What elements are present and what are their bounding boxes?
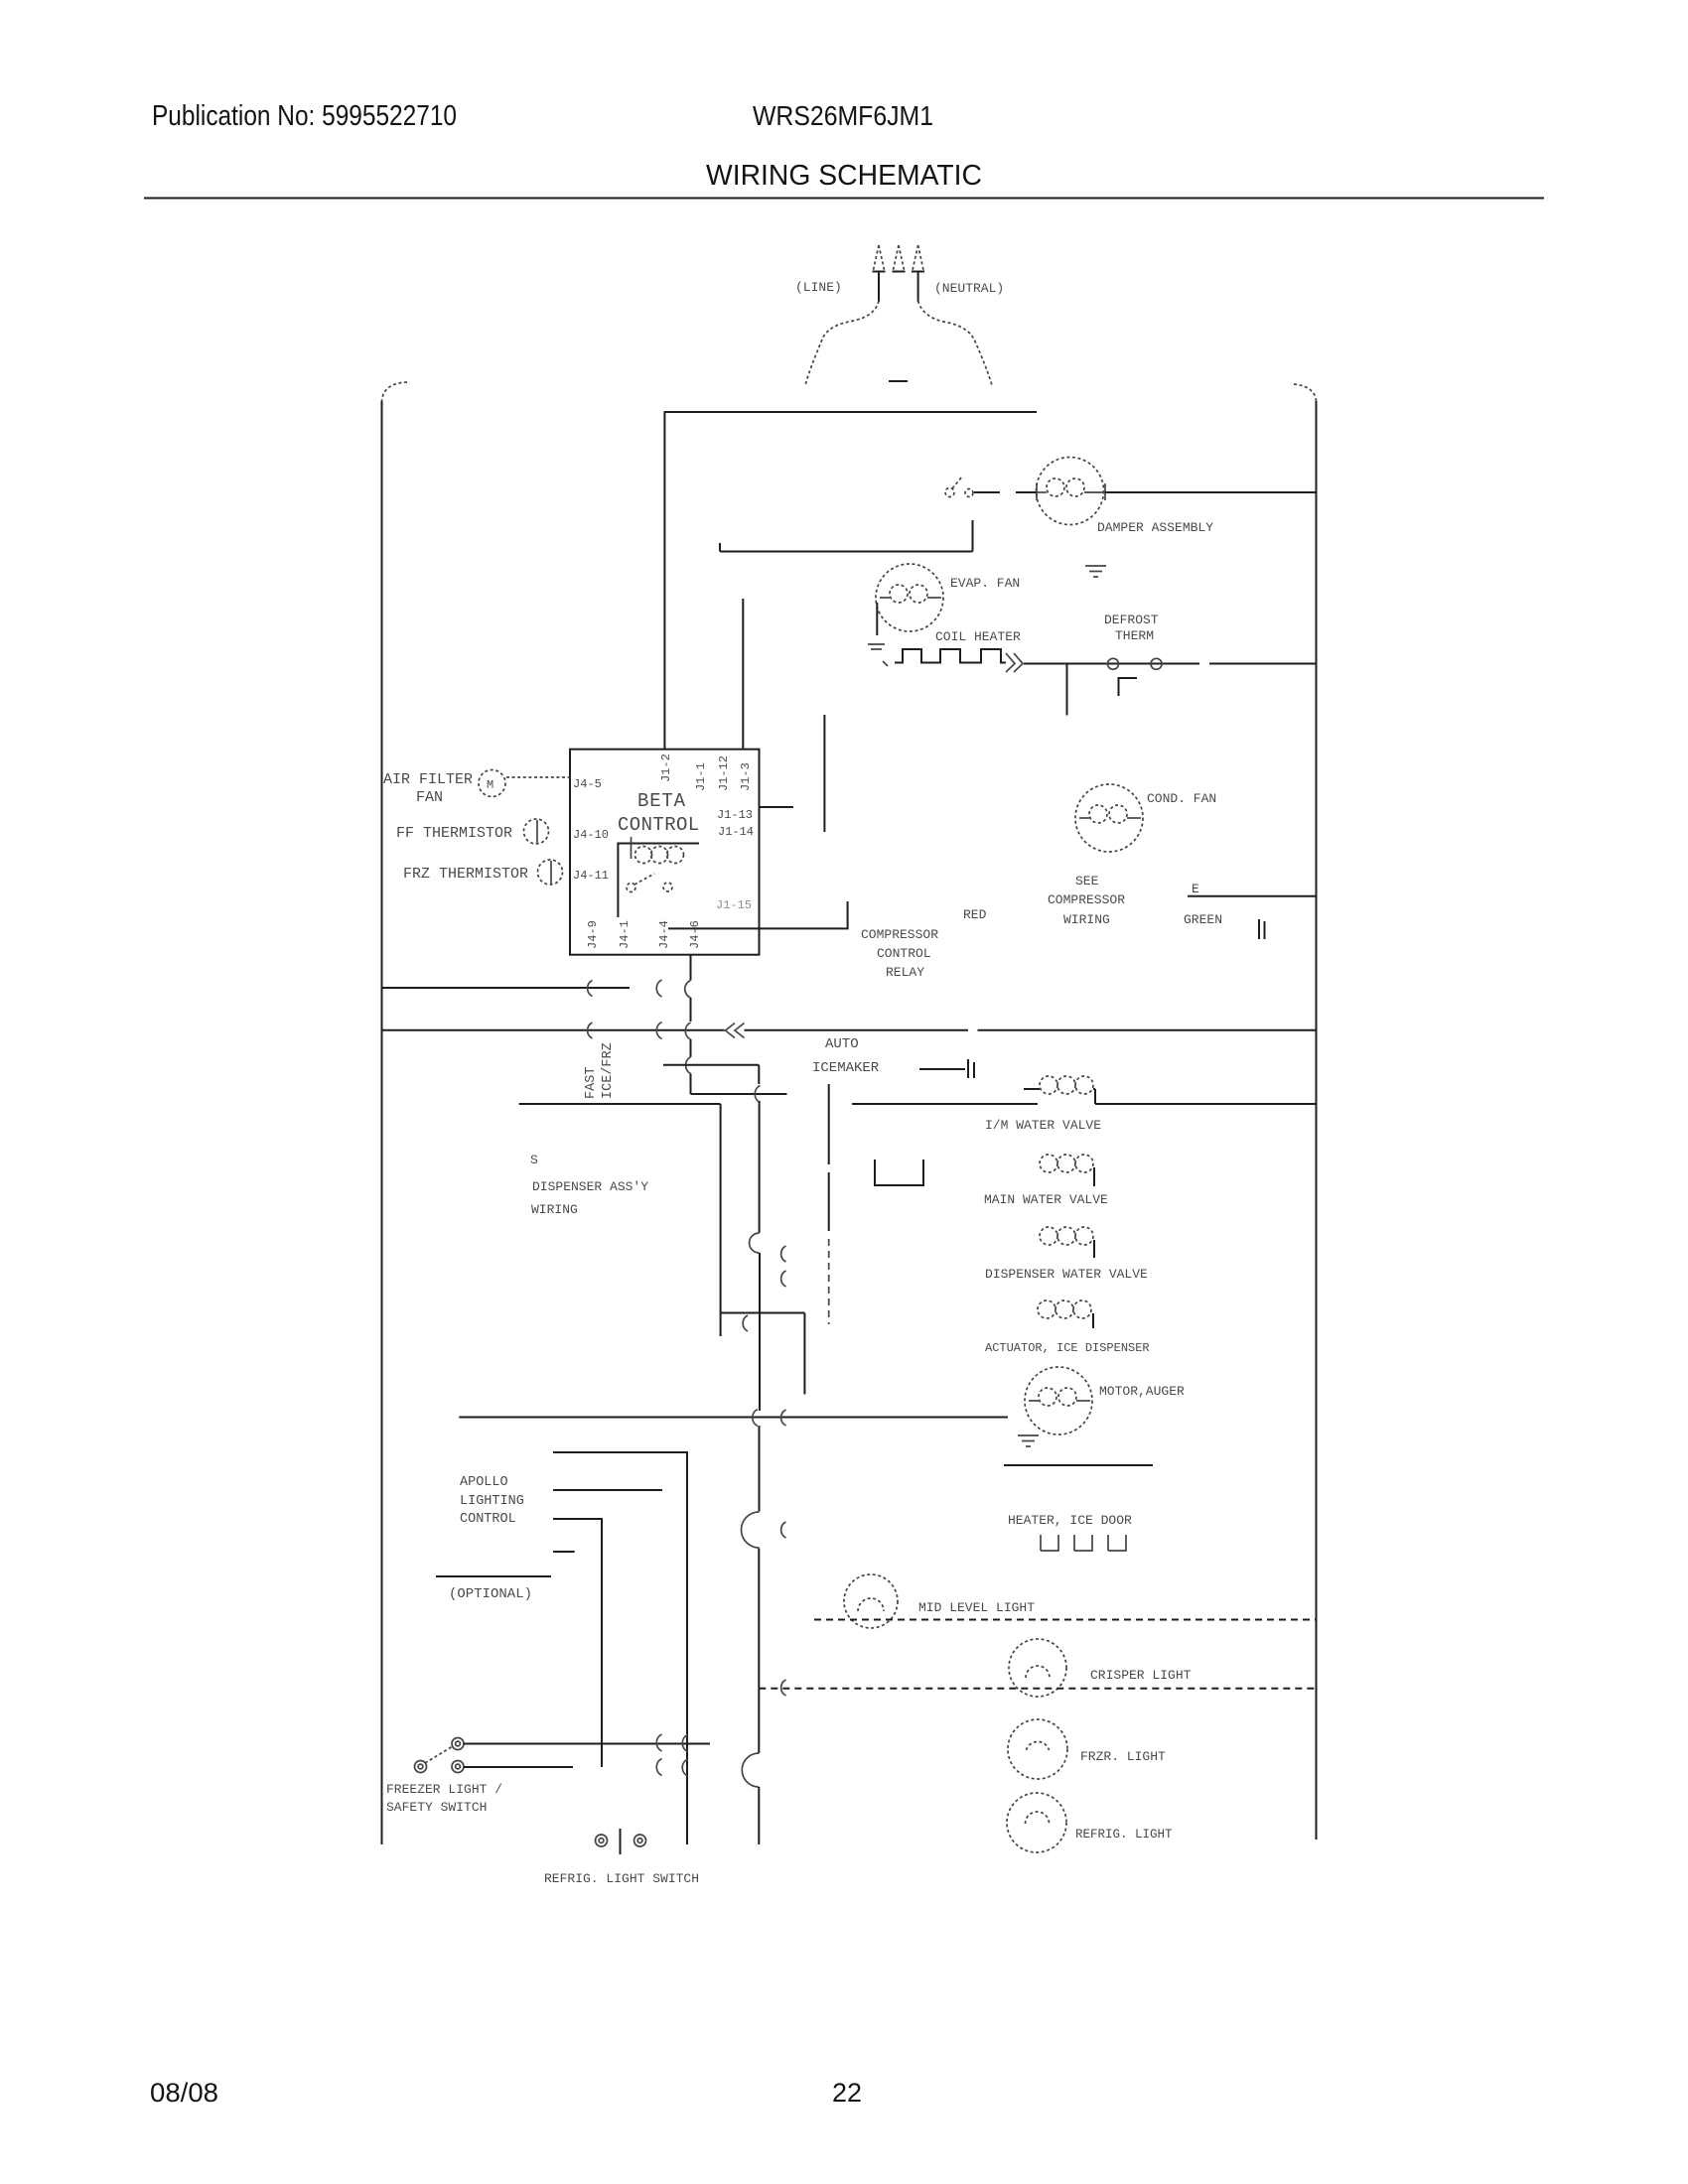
svg-text:DAMPER ASSEMBLY: DAMPER ASSEMBLY — [1097, 520, 1213, 535]
dispenser water valve coil — [1040, 1227, 1094, 1258]
wire: apollo line 2 — [553, 1489, 662, 1491]
wire: damper coil to right border — [1105, 491, 1316, 493]
ice door heater element — [1041, 1535, 1126, 1551]
harness connector arcs column (right) — [781, 1246, 786, 1262]
wire: crisper light dashed row — [759, 1688, 1316, 1690]
plug prong 3 (neutral) — [913, 245, 923, 270]
wire from prong 3 — [917, 272, 919, 302]
coil heater element (square wave) — [895, 649, 1006, 663]
svg-text:J1-13: J1-13 — [717, 808, 753, 822]
svg-text:J1-14: J1-14 — [718, 825, 754, 839]
svg-text:THERM: THERM — [1115, 628, 1154, 643]
switch terminal left — [415, 1761, 427, 1773]
connector loop arc — [750, 1233, 760, 1253]
svg-text:DEFROST: DEFROST — [1104, 613, 1159, 627]
svg-text:FRZR. LIGHT: FRZR. LIGHT — [1080, 1749, 1166, 1764]
mid level light bulb — [844, 1574, 898, 1628]
svg-text:ACTUATOR, ICE DISPENSER: ACTUATOR, ICE DISPENSER — [985, 1341, 1150, 1355]
connector bars — [1259, 919, 1265, 939]
connector arc on wire — [588, 981, 593, 997]
svg-text:E: E — [1192, 882, 1199, 896]
connector arcs row 2 — [656, 1759, 661, 1776]
icemaker arrow chevrons — [726, 1024, 745, 1038]
svg-text:J4-9: J4-9 — [586, 920, 600, 949]
svg-text:(LINE): (LINE) — [795, 280, 842, 295]
evap fan ground lead — [876, 603, 878, 635]
ground under evap fan — [868, 644, 888, 666]
optional divider line — [436, 1575, 551, 1577]
svg-text:REFRIG. LIGHT SWITCH: REFRIG. LIGHT SWITCH — [544, 1871, 699, 1886]
svg-text:MOTOR,AUGER: MOTOR,AUGER — [1099, 1384, 1185, 1399]
svg-text:J4-6: J4-6 — [688, 920, 702, 949]
wire: fast ice horizontal from left border — [382, 1029, 725, 1031]
connector loop arc — [742, 1512, 760, 1548]
wire: dispenser top line — [519, 1103, 721, 1105]
svg-text:EVAP. FAN: EVAP. FAN — [950, 576, 1020, 591]
svg-text:RELAY: RELAY — [886, 965, 924, 980]
wire: vertical continues — [690, 998, 692, 1022]
wire: drop to BETA control J1-2 — [663, 412, 665, 749]
wire: top horizontal (line side) — [664, 411, 1037, 413]
wire: relay throw horizontal (fast ice row 2) — [663, 1064, 759, 1066]
border top-left rounded corner (dashed) — [382, 382, 408, 401]
relay inside BETA control: wire L — [618, 844, 699, 918]
svg-text:FRZ THERMISTOR: FRZ THERMISTOR — [403, 866, 528, 883]
svg-text:ICEMAKER: ICEMAKER — [812, 1060, 880, 1076]
wire: vertical under switch — [972, 520, 974, 552]
connector arc on fast-ice wire — [588, 1023, 593, 1038]
svg-text:AUTO: AUTO — [825, 1036, 859, 1052]
svg-text:S: S — [530, 1153, 538, 1167]
svg-text:DISPENSER WATER VALVE: DISPENSER WATER VALVE — [985, 1267, 1148, 1282]
svg-text:CONTROL: CONTROL — [460, 1512, 516, 1527]
wire: vertical down from jog — [803, 1313, 805, 1395]
defrost thermostat terminals — [1108, 658, 1119, 669]
wire: small tick up at left end — [719, 543, 721, 552]
svg-text:WIRING SCHEMATIC: WIRING SCHEMATIC — [706, 160, 982, 192]
svg-text:FREEZER LIGHT /: FREEZER LIGHT / — [386, 1782, 502, 1797]
svg-text:J4-1: J4-1 — [618, 920, 632, 949]
wire: vertical from J4-6 pin — [690, 955, 692, 981]
svg-text:FAST: FAST — [584, 1067, 599, 1099]
svg-text:M: M — [487, 778, 493, 792]
svg-text:GREEN: GREEN — [1184, 912, 1222, 927]
ground below damper — [1085, 566, 1106, 577]
svg-text:J1-1: J1-1 — [694, 762, 708, 791]
condenser fan circle — [1075, 784, 1143, 852]
damper assembly coil circle — [1037, 458, 1104, 525]
switch lever dashed — [425, 1746, 453, 1763]
icemaker connector plates — [968, 1059, 974, 1078]
header rule — [144, 198, 1544, 200]
wire: icemaker vertical (dashed sections) — [828, 1084, 830, 1164]
svg-text:08/08: 08/08 — [150, 2078, 218, 2108]
wire from prong 1 — [878, 272, 880, 302]
svg-text:APOLLO: APOLLO — [460, 1475, 508, 1490]
icemaker mold heater bracket — [875, 1160, 923, 1185]
wire: corner down — [758, 1065, 760, 1084]
wire: vertical to dispenser jog — [690, 1074, 692, 1095]
air filter fan motor M — [479, 770, 505, 797]
svg-text:COND. FAN: COND. FAN — [1147, 791, 1216, 806]
wire: J1-13 stub right of box — [760, 806, 793, 808]
border left side — [381, 401, 383, 1844]
switch terminal top — [452, 1738, 464, 1750]
svg-text:WIRING: WIRING — [531, 1202, 578, 1217]
svg-text:SAFETY SWITCH: SAFETY SWITCH — [386, 1800, 487, 1815]
svg-text:CRISPER LIGHT: CRISPER LIGHT — [1090, 1668, 1192, 1683]
svg-text:J4-10: J4-10 — [573, 828, 609, 842]
relay coil (dashed loops) — [635, 847, 684, 864]
svg-text:WIRING: WIRING — [1063, 912, 1110, 927]
wire: harness vertical middle — [759, 1253, 761, 1411]
wire: horizontal run to left — [720, 551, 973, 553]
wire: apollo line 4 stub — [553, 1551, 575, 1553]
wire: green ground wire to right border — [1188, 895, 1316, 897]
wire: harness vertical below auger line — [759, 1426, 761, 1512]
wire: mid level light dashed row — [814, 1619, 1316, 1621]
svg-text:J1-12: J1-12 — [717, 755, 731, 791]
wire: auger feed line — [459, 1417, 1008, 1419]
svg-text:J4-11: J4-11 — [573, 869, 609, 883]
svg-text:BETA: BETA — [637, 790, 686, 812]
svg-text:CONTROL: CONTROL — [618, 814, 700, 836]
wire: safety switch row 2 — [464, 1766, 573, 1768]
svg-text:J4-5: J4-5 — [573, 777, 602, 791]
damper thermostat switch — [945, 477, 973, 497]
connector arc on jog — [743, 1315, 748, 1331]
connector arc on jog — [755, 1086, 760, 1103]
switch terminal right — [452, 1761, 464, 1773]
T/M water valve coil — [1024, 1076, 1095, 1104]
wire: jog to right — [691, 1093, 787, 1095]
motor auger circle — [1025, 1367, 1092, 1434]
svg-text:J4-4: J4-4 — [657, 920, 671, 949]
svg-text:Publication No: 5995522710: Publication No: 5995522710 — [152, 100, 457, 132]
svg-text:COIL HEATER: COIL HEATER — [935, 629, 1021, 644]
wire: stub to BETA control J1-3 — [742, 599, 744, 749]
svg-text:MAIN WATER VALVE: MAIN WATER VALVE — [984, 1192, 1108, 1207]
svg-text:(NEUTRAL): (NEUTRAL) — [934, 281, 1004, 296]
svg-text:J1-15: J1-15 — [716, 898, 752, 912]
connector arc — [686, 1057, 691, 1074]
wire: dispenser jog right — [721, 1312, 805, 1314]
svg-text:REFRIG. LIGHT: REFRIG. LIGHT — [1075, 1828, 1173, 1842]
wire: harness vertical upper — [759, 1101, 761, 1233]
svg-text:(OPTIONAL): (OPTIONAL) — [449, 1586, 532, 1602]
plug prong 2 (center ground) — [894, 245, 905, 270]
wire: safety switch row 1 — [464, 1743, 710, 1745]
border right side — [1316, 401, 1318, 1840]
connector arcs on row 1 — [656, 1734, 661, 1751]
crisper light bulb — [1009, 1639, 1066, 1697]
plug prong 1 (line) — [874, 245, 885, 270]
svg-text:LIGHTING: LIGHTING — [460, 1494, 524, 1509]
refrig light bulb — [1007, 1793, 1066, 1852]
wire: icemaker feed to right border — [745, 1029, 969, 1031]
evap fan motor circle — [876, 564, 943, 631]
svg-text:FF THERMISTOR: FF THERMISTOR — [396, 825, 512, 842]
frzr light bulb — [1008, 1719, 1067, 1779]
connector arc on crisper row — [781, 1680, 786, 1696]
wire: defrost heater stub down — [1066, 664, 1068, 716]
connector arc pair at top — [656, 980, 661, 997]
svg-text:RED: RED — [963, 907, 987, 922]
ground under motor auger — [1018, 1435, 1039, 1446]
border top-right rounded corner (dashed) — [1294, 384, 1317, 401]
connector arc pair on auger line — [753, 1410, 758, 1427]
wire: dispenser vertical — [720, 1104, 722, 1336]
svg-text:CONTROL: CONTROL — [877, 946, 931, 961]
wire: under motor — [1004, 1464, 1153, 1466]
wire: defrost line to right border — [1024, 663, 1199, 665]
relay switch lever — [627, 874, 672, 892]
svg-text:J1-2: J1-2 — [659, 753, 673, 782]
svg-text:AIR FILTER: AIR FILTER — [383, 771, 473, 788]
plug cord stub — [889, 380, 908, 382]
switch bar — [620, 1829, 622, 1854]
relay fixed contact stub — [823, 715, 825, 832]
defrost heater corner mark — [1119, 678, 1138, 696]
wire: switch to damper coil — [974, 491, 1000, 493]
connector arc pair — [656, 1023, 661, 1039]
svg-text:I/M WATER VALVE: I/M WATER VALVE — [985, 1118, 1101, 1133]
wire: J4-4 to relay contact — [668, 901, 848, 928]
svg-text:HEATER, ICE DOOR: HEATER, ICE DOOR — [1008, 1513, 1132, 1528]
plug body dashed outline left — [805, 301, 879, 385]
svg-text:FAN: FAN — [416, 789, 443, 806]
FF thermistor symbol — [524, 819, 549, 844]
dashed wire M to BETA control — [506, 776, 570, 778]
icemaker mold connector lead — [919, 1068, 965, 1070]
svg-text:COMPRESSOR: COMPRESSOR — [861, 927, 938, 942]
svg-text:ICE/FRZ: ICE/FRZ — [601, 1042, 616, 1099]
FRZ thermistor symbol — [538, 860, 563, 885]
connector chevrons >> — [1006, 653, 1023, 672]
plug body dashed outline right — [918, 301, 992, 385]
wire: valve row — [852, 1103, 1038, 1105]
svg-text:WRS26MF6JM1: WRS26MF6JM1 — [753, 100, 933, 131]
svg-text:COMPRESSOR: COMPRESSOR — [1048, 892, 1125, 907]
svg-text:SEE: SEE — [1075, 874, 1099, 888]
wire: apollo line 1 — [553, 1452, 687, 1844]
wire: from left border (J4-9 row) — [382, 987, 631, 989]
wire: vertical continues below fast-ice wire — [690, 1039, 692, 1057]
actuator coil — [1038, 1300, 1093, 1328]
svg-text:MID LEVEL LIGHT: MID LEVEL LIGHT — [918, 1600, 1035, 1615]
main water valve coil — [1040, 1155, 1094, 1186]
switch terminal left — [596, 1835, 608, 1846]
switch terminal right — [634, 1835, 646, 1846]
relay coil tick — [631, 837, 633, 859]
svg-text:DISPENSER ASS'Y: DISPENSER ASS'Y — [532, 1179, 648, 1194]
svg-text:J1-3: J1-3 — [739, 762, 753, 791]
wire: apollo line 3 — [553, 1519, 602, 1767]
svg-text:22: 22 — [832, 2078, 862, 2108]
wire: harness vertical lower — [758, 1549, 760, 1754]
BETA control board outline — [570, 750, 760, 955]
